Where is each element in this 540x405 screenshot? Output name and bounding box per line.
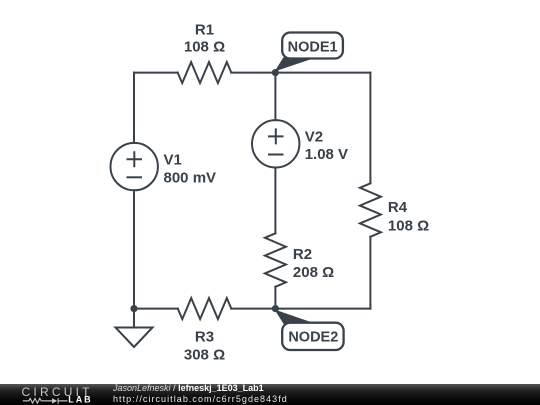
wire node1 down to V2 [274, 73, 276, 121]
footer bar [0, 384, 540, 405]
svg-text:R1: R1 [195, 21, 214, 38]
V2 plus sign [268, 128, 284, 144]
svg-text:308 Ω: 308 Ω [184, 347, 225, 364]
resistor R1 [178, 62, 232, 83]
svg-text:108 Ω: 108 Ω [388, 218, 429, 235]
svg-text:R3: R3 [195, 328, 214, 345]
CircuitLab logo [0, 384, 100, 405]
NODE1 callout tail [275, 57, 311, 72]
V1 minus sign [127, 176, 143, 178]
node junction dot ground [130, 305, 137, 312]
wire R4 bottom to bottom-right corner [369, 237, 371, 309]
svg-text:R4: R4 [388, 199, 408, 216]
voltage source V1 [111, 143, 158, 190]
wire right branch top vertical [369, 73, 371, 184]
wire V1 bottom to bottom-left junction [133, 190, 135, 308]
resistor R2 [265, 233, 286, 286]
svg-text:V2: V2 [305, 129, 323, 146]
wire R1 to node1 [231, 72, 275, 74]
svg-text:108 Ω: 108 Ω [184, 39, 225, 56]
svg-text:R2: R2 [293, 246, 312, 263]
node junction dot node1 [272, 69, 279, 76]
wire R2 bottom to node2 [274, 287, 276, 309]
resistor R4 [360, 183, 381, 237]
wire bottom-left junction to R3 [134, 308, 178, 310]
ground triangle [116, 328, 153, 348]
svg-text:V1: V1 [164, 151, 182, 168]
ground stem [133, 309, 135, 327]
NODE1 tag box [282, 33, 343, 59]
svg-text:NODE1: NODE1 [288, 40, 338, 56]
wire node1 to top-right corner [275, 72, 370, 74]
NODE2 tag box [282, 323, 343, 350]
svg-text:1.08 V: 1.08 V [305, 146, 348, 163]
node junction dot node2 [272, 305, 279, 312]
NODE2 callout tail [275, 310, 311, 325]
wire left branch vertical (top corner to V1) [133, 73, 135, 143]
svg-text:LAB: LAB [68, 394, 91, 404]
wire R3 to node2 [231, 308, 275, 310]
svg-text:NODE2: NODE2 [288, 329, 338, 345]
V1 plus sign [127, 151, 143, 167]
wire V2 bottom to R2 [274, 168, 276, 234]
logo wire-resistor-diode [23, 398, 68, 403]
resistor R3 [178, 298, 232, 319]
svg-text:208 Ω: 208 Ω [293, 264, 334, 281]
V2 minus sign [268, 154, 284, 156]
svg-text:800 mV: 800 mV [164, 169, 217, 186]
voltage source V2 [252, 120, 299, 167]
wire top-left horizontal (left node to R1) [134, 72, 178, 74]
wire node2 to bottom-right corner [275, 308, 370, 310]
